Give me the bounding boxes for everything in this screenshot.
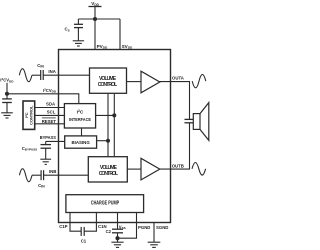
svg-text:SVDD: SVDD [122,44,133,50]
source VINA sine [19,69,32,82]
op-amp A2 triangle [141,158,160,180]
waveform OUTB sine [192,163,206,176]
chip U1 outline [59,50,171,223]
VDD power symbol [89,7,102,20]
I2C CONTROL box [23,101,35,129]
op-amp A1 triangle [141,71,160,93]
svg-text:SDA: SDA [46,102,55,107]
wire C1N pin [84,213,96,232]
wire PGND pin [118,213,137,239]
wire SDA [35,107,65,109]
node VSS junction [115,236,119,240]
source VINB sine [19,169,32,182]
svg-text:BIASING: BIASING [71,140,90,146]
svg-text:OUTA: OUTA [172,76,184,81]
I2C interface block [64,104,95,128]
wire INB into chip [44,174,89,176]
speaker LS1 [193,103,209,141]
wire SGND pin [153,223,155,243]
svg-text:OUTB: OUTB [172,163,184,168]
wire PVDD stub [94,19,96,50]
wire OUTA [160,82,190,120]
wire RESET [35,123,65,125]
capacitor C2 [112,229,123,242]
node bus B [106,139,110,143]
wire BYPASS [46,140,65,142]
capacitor CIN (INB) [41,170,44,180]
wire VC2 to amp2 [127,168,141,170]
svg-text:CIN: CIN [37,63,44,69]
svg-text:CONTROL: CONTROL [99,171,118,177]
svg-text:C2: C2 [106,229,112,234]
wire I2CVDD to chip [7,94,79,104]
svg-text:I2CVDD: I2CVDD [43,87,57,93]
wire VSS pin [117,213,119,230]
svg-text:INB: INB [49,169,56,174]
capacitor CBYPASS [41,141,52,159]
ground (C2) [111,242,123,247]
wire SCL [35,114,65,116]
svg-text:SCL: SCL [47,110,56,115]
wire INA to cap [32,74,41,76]
svg-text:RESET: RESET [42,119,57,124]
svg-text:C1P: C1P [59,224,67,229]
wire bus v2 [113,93,115,156]
svg-text:BYPASS: BYPASS [40,135,56,140]
capacitor piezo (speaker) [185,119,195,122]
waveform OUTA sine [192,74,206,87]
ground (CS) [73,41,84,46]
wire C1P pin [70,213,81,232]
I2C CONTROL box text [24,105,34,125]
wire I2CVDD stub [6,83,8,94]
ground (CBYPASS) [40,159,51,164]
svg-text:PVDD: PVDD [97,44,108,50]
svg-text:PGND: PGND [138,225,150,230]
node VDD junction [93,17,97,21]
svg-text:CHARGE PUMP: CHARGE PUMP [91,200,120,206]
svg-text:I2C: I2C [77,109,84,116]
node I2CVDD junction [5,92,9,96]
wire VC1 to amp1 [127,81,142,83]
charge pump block [66,195,144,213]
ground (SGND) [148,242,161,247]
biasing block [65,136,97,148]
svg-text:I2CVDD: I2CVDD [0,77,14,83]
capacitor CIN (INA) [41,70,44,80]
svg-text:CONTROL: CONTROL [29,105,34,125]
wire I2C to biasing [81,128,83,136]
wire I2C to bus [96,114,115,116]
wire INB to cap [32,174,41,176]
svg-text:SGND: SGND [156,225,168,230]
wire INA into chip [43,74,89,76]
svg-text:CONTROL: CONTROL [98,82,117,88]
svg-text:CS: CS [65,27,70,33]
wire SVDD stub [119,19,121,50]
wire OUTB [160,123,190,169]
wire biasing to bus [97,140,108,142]
node bus A [112,113,116,117]
svg-text:INTERFACE: INTERFACE [69,117,92,123]
svg-text:CIN: CIN [38,183,45,189]
capacitor C1 [81,227,84,236]
svg-text:CBYPASS: CBYPASS [22,146,38,152]
wire VDD rail [78,18,120,20]
capacitor (I2CVDD bypass) [2,94,12,113]
svg-text:C1: C1 [81,239,87,244]
capacitor CS [74,19,83,41]
wire bus v1 [107,93,109,156]
svg-text:INA: INA [48,69,55,74]
ground (I2CVDD cap) [1,113,13,118]
volume control block 1 [90,68,127,93]
volume control block 2 [88,157,127,182]
